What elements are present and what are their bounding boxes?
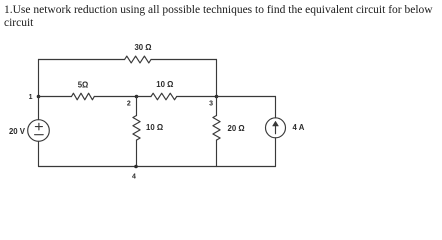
resistor 10 ohm (vertical) — [133, 116, 140, 141]
resistor 30 ohm (top) — [125, 56, 151, 63]
svg-text:10 Ω: 10 Ω — [146, 123, 163, 132]
voltage source 20 V — [28, 120, 50, 142]
wire node 2 to 10-ohm horizontal resistor — [137, 96, 152, 98]
wire current-source branch bottom — [275, 138, 277, 167]
resistor 20 ohm (vertical) — [213, 116, 220, 141]
label 20 ohm — [228, 124, 245, 133]
label 4 — [132, 174, 136, 181]
label 4 A — [293, 123, 305, 132]
wire current-source branch top — [275, 97, 277, 118]
label 5 ohm — [78, 80, 89, 89]
svg-text:1: 1 — [29, 94, 33, 101]
wire node 3 to current-source branch — [217, 96, 276, 98]
wire 5-ohm to node 2 — [94, 96, 136, 98]
label 10 ohm horizontal — [156, 80, 173, 89]
wire top-right segment — [151, 59, 217, 61]
svg-text:4: 4 — [132, 174, 136, 181]
svg-text:20 V: 20 V — [9, 127, 26, 136]
label 20 V — [9, 127, 26, 136]
wire top-left segment — [39, 59, 125, 61]
wire bottom — [39, 166, 276, 168]
wire right side of top loop down to node 3 — [216, 60, 218, 97]
label 10 ohm vertical — [146, 123, 163, 132]
node 1 — [37, 95, 41, 99]
node 4 — [134, 165, 138, 169]
node 2 — [135, 95, 139, 99]
svg-text:30 Ω: 30 Ω — [134, 43, 151, 52]
svg-text:10 Ω: 10 Ω — [156, 80, 173, 89]
svg-text:20 Ω: 20 Ω — [228, 124, 245, 133]
wire left vertical from top wire to node 1 — [38, 60, 40, 97]
node 3 — [215, 95, 219, 99]
resistor 5 ohm — [72, 93, 95, 100]
wire 10-ohm to node 3 — [177, 96, 217, 98]
current source 4 A — [266, 118, 286, 138]
wire 20-ohm resistor to bottom wire — [216, 140, 218, 167]
wire node 3 down to 20-ohm resistor — [216, 97, 218, 116]
label 30 ohm — [134, 43, 151, 52]
wire node 1 down to voltage source — [38, 97, 40, 120]
svg-text:2: 2 — [127, 100, 131, 107]
svg-text:5Ω: 5Ω — [78, 80, 89, 89]
wire 10-ohm vertical to bottom wire — [136, 140, 138, 167]
label 3 — [209, 100, 213, 107]
wire node 2 down to 10-ohm vertical resistor — [136, 97, 138, 116]
label 2 — [127, 100, 131, 107]
svg-text:4 A: 4 A — [293, 123, 305, 132]
resistor 10 ohm (horizontal) — [151, 93, 177, 100]
wire node 1 to 5-ohm resistor — [39, 96, 72, 98]
label 1 — [29, 94, 33, 101]
wire voltage source to bottom wire — [38, 141, 40, 166]
svg-text:3: 3 — [209, 100, 213, 107]
